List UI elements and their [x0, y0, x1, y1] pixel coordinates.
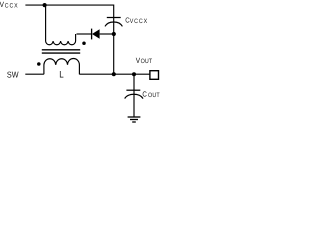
label CVCCX — [125, 16, 148, 25]
node junction dot rail-cout — [132, 72, 136, 76]
ground symbol — [128, 117, 141, 122]
node phase dot bottom winding — [37, 62, 41, 66]
node junction dot top — [43, 3, 47, 7]
diode D1 — [77, 29, 115, 40]
svg-text:VCCX: VCCX — [130, 18, 148, 25]
node phase dot top winding — [82, 42, 86, 46]
node VCCX label — [0, 0, 19, 9]
svg-text:SW: SW — [7, 69, 19, 79]
svg-text:CCX: CCX — [5, 2, 19, 9]
wire VCCX top rail — [25, 5, 113, 34]
svg-text:OUT: OUT — [141, 58, 153, 65]
svg-text:OUT: OUT — [148, 92, 160, 99]
label L — [59, 69, 63, 80]
svg-text:C: C — [142, 89, 146, 98]
inductor L secondary winding (bottom) — [44, 59, 80, 75]
wire cap junction down to output rail — [113, 34, 115, 74]
node junction dot diode-cap — [112, 32, 116, 36]
node VOUT label — [136, 56, 153, 65]
terminal box VOUT — [150, 71, 159, 80]
wire SW lead — [25, 73, 44, 75]
capacitor CVCCX — [105, 18, 122, 27]
wire output rail — [79, 73, 149, 75]
node SW label — [7, 69, 19, 79]
svg-text:L: L — [59, 69, 63, 80]
core bars — [42, 50, 80, 53]
label COUT — [142, 89, 159, 98]
node junction dot rail-cap — [112, 72, 116, 76]
wire rail junction down to COUT — [133, 74, 135, 116]
capacitor COUT — [125, 90, 143, 98]
inductor L primary winding (top) — [46, 5, 76, 45]
